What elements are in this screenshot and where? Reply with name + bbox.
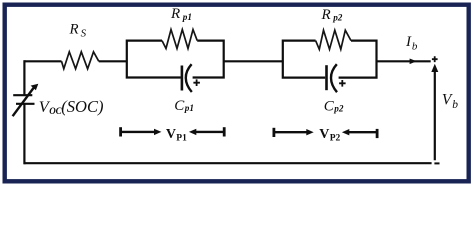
capacitor Cp1 curved plate xyxy=(186,64,192,92)
source VOC variable arrow xyxy=(13,87,35,117)
resistor Rp2 xyxy=(316,30,351,49)
svg-text:b: b xyxy=(452,99,458,111)
RC box 2 outline xyxy=(283,41,377,78)
Vp2 measure left tick xyxy=(272,128,275,137)
wire top-left segment xyxy=(24,60,61,62)
svg-text:V: V xyxy=(319,127,329,142)
capacitor Cp2 plus sign xyxy=(339,80,346,87)
Vp1 measure right tick xyxy=(223,127,226,136)
wire left vertical upper xyxy=(23,60,25,95)
wire box1 to box2 xyxy=(224,60,283,62)
svg-text:P1: P1 xyxy=(176,133,187,143)
svg-text:R: R xyxy=(69,22,79,38)
Vb arrow xyxy=(434,72,436,161)
RC box 1 outline xyxy=(127,41,224,78)
svg-text:C: C xyxy=(324,99,335,115)
resistor Rp1 xyxy=(162,30,197,49)
resistor RS xyxy=(62,52,99,69)
Vp1 measure left tick xyxy=(119,127,122,136)
svg-text:R: R xyxy=(321,7,331,23)
source VOC lower plate xyxy=(16,103,35,105)
svg-text:V: V xyxy=(166,127,176,142)
svg-text:P2: P2 xyxy=(330,134,341,144)
Vp1 measure right arrow xyxy=(121,131,155,133)
wire RS to box1 xyxy=(99,60,127,62)
capacitor Cp1 left plate xyxy=(181,66,184,91)
svg-text:C: C xyxy=(174,98,185,114)
svg-text:p2: p2 xyxy=(333,103,344,113)
svg-text:R: R xyxy=(170,6,180,22)
svg-text:p1: p1 xyxy=(184,103,194,113)
Ib arrowhead xyxy=(410,59,417,65)
border frame xyxy=(5,5,469,182)
svg-text:(SOC): (SOC) xyxy=(61,97,103,116)
capacitor Cp1 plus sign xyxy=(193,79,200,86)
minus terminal xyxy=(434,162,439,164)
Vp2 measure right arrow xyxy=(274,131,307,133)
wire left vertical lower xyxy=(23,104,25,164)
svg-text:p2: p2 xyxy=(332,13,343,23)
plus terminal xyxy=(432,56,438,62)
Vp1 measure left arrow xyxy=(189,129,196,135)
source VOC upper plate xyxy=(13,94,32,96)
svg-text:b: b xyxy=(412,40,418,52)
wire box2 to terminal with Ib arrow xyxy=(377,60,431,62)
Vp2 measure left arrow xyxy=(342,129,349,135)
svg-text:p1: p1 xyxy=(182,12,192,22)
svg-text:S: S xyxy=(81,27,87,39)
bottom wire xyxy=(24,162,431,164)
capacitor Cp2 left plate xyxy=(325,65,328,90)
Vp2 measure right tick xyxy=(376,129,379,138)
capacitor Cp2 curved plate xyxy=(331,64,337,92)
